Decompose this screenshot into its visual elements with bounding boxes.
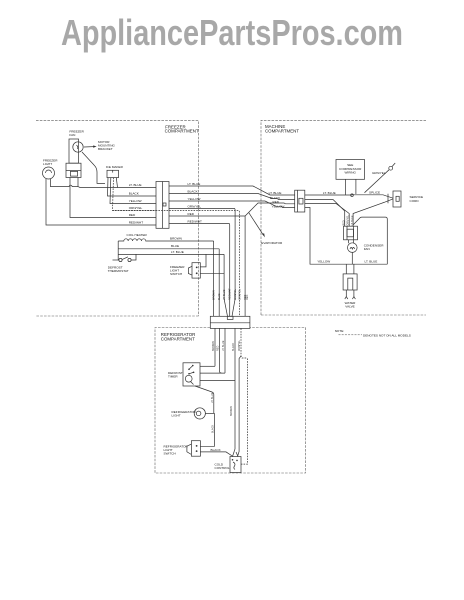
machine compartment label [265,124,299,133]
svg-text:YELLOW: YELLOW [129,199,142,203]
defrost timer [168,363,200,386]
svg-text:YELLOW: YELLOW [272,205,285,209]
see compressor wiring box [336,160,365,195]
svg-text:VALVE: VALVE [345,304,355,308]
svg-text:LT. BLUE: LT. BLUE [129,183,142,187]
svg-text:COMPARTMENT: COMPARTMENT [265,128,299,133]
svg-text:EVAPORATOR: EVAPORATOR [261,241,283,245]
freezer fan motor [66,129,85,177]
compressor enclosure wire loop [353,217,387,264]
machine connector J3 [295,190,305,212]
svg-text:FAN: FAN [364,247,370,251]
wire hop [69,185,72,186]
refrigerator compartment border [155,328,306,474]
svg-text:RED: RED [273,200,280,204]
svg-text:LT. BLUE: LT. BLUE [223,289,226,300]
motor mounting bracket label + arrow [84,140,115,151]
ice maker [106,165,124,177]
svg-text:ORN/YEL: ORN/YEL [129,206,143,210]
connector J1 freezer harness [156,182,169,229]
svg-text:RED: RED [129,213,136,217]
svg-text:GRN/YEL: GRN/YEL [372,171,386,175]
wire blue [118,248,219,250]
wire red down [305,204,349,227]
wire yellow to machine connector [169,201,295,208]
wires below connector [215,328,248,464]
svg-text:ICE MAKER: ICE MAKER [106,165,124,169]
machine left wire labels [269,191,285,209]
svg-text:BLACK: BLACK [188,189,199,193]
refrigerator light switch [164,441,201,457]
svg-text:COMPARTMENT: COMPARTMENT [161,337,195,342]
wire lt.blue heater [118,253,224,255]
svg-text:BLACK: BLACK [232,342,235,351]
svg-text:COIL HEATER: COIL HEATER [127,233,148,237]
svg-text:LT. BLUE: LT. BLUE [188,182,201,186]
splice [351,194,354,197]
svg-text:FAN: FAN [69,133,75,137]
wire light to switch [200,413,214,446]
wire labels left of connector [129,183,144,224]
coil heater [118,233,213,241]
svg-text:RED/WHT: RED/WHT [229,288,232,300]
wire freezer light left lead (red/wht) [46,179,156,225]
grn/yel ground wire [365,163,396,193]
svg-text:BROWN: BROWN [170,237,182,241]
svg-text:ORN/YEL: ORN/YEL [238,288,241,300]
wire orn/yel turns down [169,209,235,317]
svg-text:BRACKET: BRACKET [98,147,113,151]
below connector labels [212,339,241,351]
overload protector [344,226,358,240]
wire black to machine connector [169,194,295,200]
svg-text:AppliancePartsPros.com: AppliancePartsPros.com [61,12,403,53]
svg-text:LT. BLUE: LT. BLUE [269,191,282,195]
wire fan right leg joins lt.blue [77,178,79,187]
svg-text:BLACK: BLACK [129,192,140,196]
svg-text:BROWN: BROWN [230,406,233,416]
svg-text:DENOTES NOT ON ALL MODELS: DENOTES NOT ON ALL MODELS [363,333,411,337]
cold control [215,452,242,473]
wire red/wht turns down [169,224,230,317]
timer wires [195,366,235,413]
wire lt.blue freezer [78,186,156,189]
svg-text:SWITCH: SWITCH [170,272,182,276]
svg-text:RED: RED [188,212,195,216]
svg-text:BLACK: BLACK [211,424,214,433]
defrost thermostat [108,254,136,272]
svg-text:LT. BLUE: LT. BLUE [323,191,336,195]
ice maker leads [108,178,157,211]
machine compartment border [261,120,426,315]
svg-text:YELLOW: YELLOW [317,259,330,263]
svg-text:RED: RED [246,295,249,300]
svg-text:ORN/YEL: ORN/YEL [188,204,202,208]
svg-text:NOTE:: NOTE: [335,329,345,333]
svg-text:LT. BLUE: LT. BLUE [365,259,378,263]
refrigerator compartment label [161,332,195,341]
svg-text:BLACK: BLACK [211,448,222,452]
svg-text:RED/WHT: RED/WHT [129,221,144,225]
svg-text:ORN/YEL: ORN/YEL [347,214,350,225]
wire yellow down and across [305,208,388,265]
connector J2 horizontal [210,316,250,328]
svg-text:LT. BLUE: LT. BLUE [222,340,225,351]
svg-text:THERMOSTAT: THERMOSTAT [108,269,129,273]
svg-text:COMPARTMENT: COMPARTMENT [165,129,199,134]
wire heater left vertical [117,241,119,260]
bundle vertical labels [213,288,248,300]
svg-text:SPLICE: SPLICE [369,190,380,194]
wire red to machine connector branch [169,203,295,216]
wire fan motor diagonal [82,152,105,183]
svg-text:RED: RED [217,346,220,351]
svg-text:BLUE: BLUE [171,244,179,248]
svg-text:CONTROL: CONTROL [215,466,230,470]
condenser fan motor [348,240,385,264]
svg-text:BROWN: BROWN [213,290,216,300]
svg-text:LT. BLUE: LT. BLUE [211,392,214,403]
svg-text:CORD: CORD [410,199,420,203]
freezer compartment border [36,121,199,316]
svg-text:ORN/YEL: ORN/YEL [234,288,237,300]
water valve leads [346,264,354,274]
bundle verticals [214,241,228,316]
wire orn/yel dashed down [113,211,240,317]
svg-text:BROWN: BROWN [212,341,215,351]
freezer compartment label [165,124,199,133]
wire red vertical drop [244,216,246,316]
svg-text:BLUE: BLUE [218,293,221,300]
wire service lower prong diagonal [353,199,393,226]
wire switch to cold control (black) [200,452,233,457]
wire labels right of connector [188,182,203,224]
note [335,329,411,337]
svg-text:TIMER: TIMER [168,375,178,379]
svg-text:WIRING: WIRING [344,171,356,175]
refrigerator light [172,408,215,419]
column vertical labels [342,214,354,225]
wire fan left leg (red) [70,178,156,218]
wire lt.blue to machine connector [169,186,295,195]
service cord [388,191,423,207]
freezer light switch [170,254,224,278]
svg-text:RED/WHT: RED/WHT [188,219,203,223]
svg-text:LT. BLUE: LT. BLUE [171,250,184,254]
evaporator arrow [249,213,283,245]
svg-text:ORN/YEL: ORN/YEL [238,339,241,351]
wire freezer light right lead [51,179,79,187]
svg-text:RED: RED [342,220,345,225]
svg-text:SWITCH: SWITCH [164,452,176,456]
wire black down to overload [305,200,345,227]
water valve [343,274,357,308]
freezer light [43,159,59,180]
svg-text:LIGHT: LIGHT [43,162,52,166]
wire lt.blue to service cord [305,195,393,198]
svg-text:YELLOW: YELLOW [188,197,201,201]
svg-text:LIGHT: LIGHT [172,414,181,418]
